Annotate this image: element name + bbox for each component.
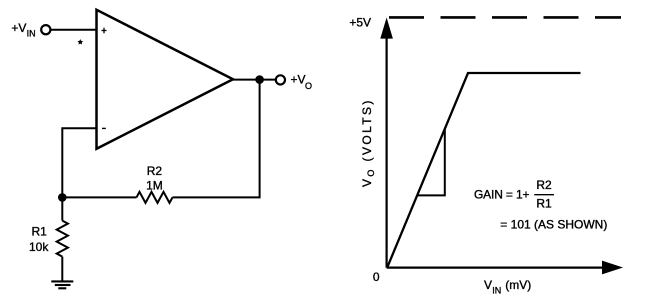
svg-text:R1: R1: [32, 225, 48, 239]
wire: R1 to ground: [61, 257, 63, 282]
resistor R1: [57, 221, 68, 257]
dashed +5V supply line: [389, 16, 621, 19]
x-axis arrowhead: [602, 261, 623, 275]
wire: inverting input down to feedback node: [62, 128, 96, 197]
svg-text:R1: R1: [536, 196, 552, 210]
svg-text:10k: 10k: [29, 240, 49, 254]
svg-text:+5V: +5V: [349, 16, 371, 30]
op-amp U1: [97, 10, 234, 149]
svg-text:= 101 (AS SHOWN): = 101 (AS SHOWN): [500, 218, 607, 232]
wire: input terminal to non-inverting input: [50, 29, 96, 31]
gain slope triangle: [418, 129, 445, 196]
svg-text:IN: IN: [492, 286, 501, 296]
svg-text:1M: 1M: [146, 179, 163, 193]
junction dot: output node: [255, 75, 264, 84]
svg-text:IN: IN: [27, 28, 36, 38]
svg-text:O: O: [305, 81, 312, 91]
star marker: [77, 39, 83, 44]
svg-text:(mV): (mV): [505, 278, 531, 292]
input terminal (+VIN): [41, 25, 50, 34]
y-axis: [386, 37, 388, 268]
y-axis label VO (VOLTS): [360, 98, 376, 187]
x-axis: [387, 267, 604, 269]
svg-text:GAIN = 1+: GAIN = 1+: [474, 188, 529, 202]
label +VIN: [11, 21, 35, 39]
op-amp + input pin label: [102, 28, 107, 34]
svg-text:R2: R2: [536, 178, 552, 192]
wire: R2 to feedback node: [62, 196, 136, 198]
wire: op-amp output: [231, 79, 276, 81]
junction dot: feedback node: [58, 193, 67, 202]
svg-text:+V: +V: [11, 21, 26, 35]
op-amp - input pin label: [102, 127, 106, 129]
fraction R2/R1: [534, 178, 554, 210]
wire: feedback node to R1: [61, 197, 63, 220]
wire: feedback from output node down and left to R2: [173, 80, 260, 198]
svg-text:V: V: [484, 278, 492, 292]
y-axis arrowhead: [380, 18, 393, 39]
resistor R2: [137, 192, 173, 203]
label +VO: [291, 73, 313, 91]
svg-text:R2: R2: [147, 164, 163, 178]
x-axis label VIN (mV): [484, 278, 531, 296]
svg-text:0: 0: [373, 270, 380, 284]
ground: [51, 281, 73, 288]
svg-text:+V: +V: [291, 73, 306, 87]
output terminal (+VO): [276, 75, 285, 84]
transfer curve: [388, 73, 581, 267]
